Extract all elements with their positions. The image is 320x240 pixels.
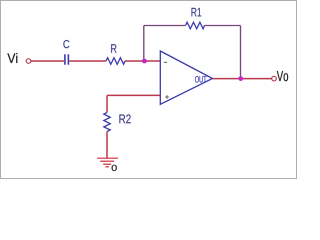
wire R2 branch vertical top: [106, 95, 108, 112]
node junction at inverting input: [142, 59, 147, 64]
wire R to op-amp inverting input: [125, 60, 160, 62]
label C: [63, 40, 69, 48]
resistor R: [106, 58, 125, 65]
pin marker minus: [164, 61, 167, 63]
label Vo: [277, 71, 288, 81]
resistor R1: [186, 22, 205, 29]
wire feedback top right segment: [205, 25, 241, 27]
wire R2 to ground: [106, 132, 108, 159]
label 0: [112, 165, 117, 171]
wire op-amp output to Vo: [213, 78, 272, 80]
op-amp U1: [160, 51, 212, 104]
pin marker plus: [165, 95, 169, 99]
wire R2 branch horizontal to non-inverting input: [107, 94, 160, 96]
label R1: [192, 8, 202, 17]
label Vi: [7, 53, 17, 63]
wire C to R: [69, 60, 106, 62]
label R2: [119, 114, 130, 123]
wire feedback right vertical: [240, 26, 242, 79]
pin label OUT: [195, 76, 207, 83]
terminal Vi: [26, 59, 31, 64]
node junction at output: [238, 76, 243, 81]
wire Vi to C: [31, 60, 64, 62]
resistor R2: [104, 113, 110, 132]
wire feedback left vertical: [143, 26, 145, 62]
capacitor C: [65, 54, 69, 64]
ground: [97, 158, 118, 167]
wire feedback top left segment: [144, 25, 186, 27]
terminal Vo: [272, 76, 277, 81]
label R: [111, 44, 116, 53]
